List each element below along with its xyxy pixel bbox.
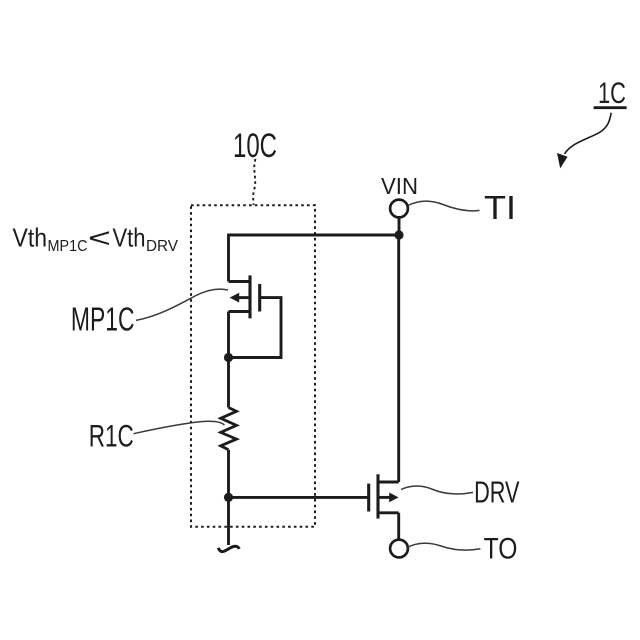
- svg-text:1C: 1C: [598, 77, 626, 110]
- svg-text:TI: TI: [484, 189, 516, 226]
- svg-text:R1C: R1C: [89, 418, 134, 454]
- svg-text:TO: TO: [484, 532, 518, 565]
- svg-text:Vth: Vth: [113, 223, 146, 253]
- svg-text:Vth: Vth: [13, 223, 48, 253]
- svg-text:MP1C: MP1C: [48, 238, 88, 255]
- svg-text:MP1C: MP1C: [71, 301, 135, 338]
- svg-text:VIN: VIN: [381, 173, 418, 199]
- svg-text:DRV: DRV: [474, 475, 520, 509]
- svg-text:DRV: DRV: [146, 238, 179, 255]
- svg-text:<: <: [88, 223, 111, 253]
